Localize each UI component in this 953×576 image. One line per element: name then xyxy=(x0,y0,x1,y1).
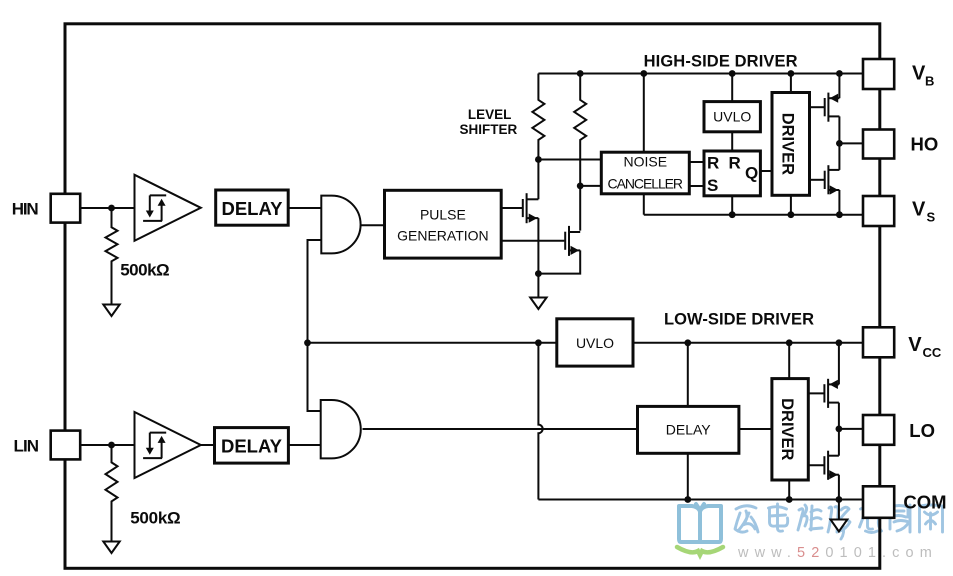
svg-text:V: V xyxy=(908,334,922,356)
svg-text:Q: Q xyxy=(745,164,758,183)
svg-text:R: R xyxy=(707,153,719,172)
svg-text:PULSE: PULSE xyxy=(420,206,466,222)
svg-text:www.520101.com: www.520101.com xyxy=(737,545,938,561)
svg-text:LEVEL: LEVEL xyxy=(468,107,512,122)
svg-text:HO: HO xyxy=(911,134,939,155)
svg-text:UVLO: UVLO xyxy=(713,109,751,125)
svg-text:V: V xyxy=(912,63,926,85)
svg-text:DELAY: DELAY xyxy=(221,198,283,219)
svg-text:LO: LO xyxy=(909,420,935,441)
svg-text:HIN: HIN xyxy=(12,200,39,219)
svg-text:CC: CC xyxy=(923,345,942,360)
svg-text:500kΩ: 500kΩ xyxy=(130,509,181,528)
svg-text:NOISE: NOISE xyxy=(624,154,668,170)
svg-text:DELAY: DELAY xyxy=(221,435,283,456)
svg-text:GENERATION: GENERATION xyxy=(397,228,489,244)
svg-text:UVLO: UVLO xyxy=(576,335,614,351)
svg-text:LOW-SIDE DRIVER: LOW-SIDE DRIVER xyxy=(664,311,814,329)
svg-text:LIN: LIN xyxy=(14,437,40,456)
svg-text:B: B xyxy=(925,74,934,89)
svg-text:CANCELLER: CANCELLER xyxy=(608,175,684,191)
svg-text:S: S xyxy=(927,210,936,225)
svg-text:DRIVER: DRIVER xyxy=(778,398,796,460)
svg-text:R: R xyxy=(729,153,741,172)
svg-text:V: V xyxy=(912,199,926,221)
svg-text:DRIVER: DRIVER xyxy=(779,113,797,175)
svg-text:DELAY: DELAY xyxy=(666,422,712,438)
svg-text:COM: COM xyxy=(903,492,946,513)
svg-text:SHIFTER: SHIFTER xyxy=(460,122,518,137)
svg-text:500kΩ: 500kΩ xyxy=(120,260,170,279)
svg-text:S: S xyxy=(707,176,718,195)
svg-text:HIGH-SIDE DRIVER: HIGH-SIDE DRIVER xyxy=(644,52,798,70)
